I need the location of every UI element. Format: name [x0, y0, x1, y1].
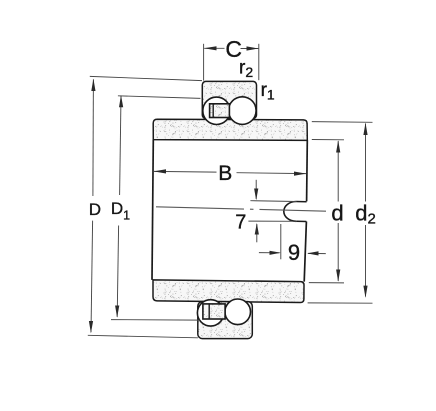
svg-text:D: D: [89, 200, 101, 219]
svg-text:d: d: [331, 200, 343, 225]
svg-text:7: 7: [235, 212, 246, 234]
svg-text:9: 9: [288, 240, 300, 265]
svg-text:B: B: [218, 162, 232, 185]
